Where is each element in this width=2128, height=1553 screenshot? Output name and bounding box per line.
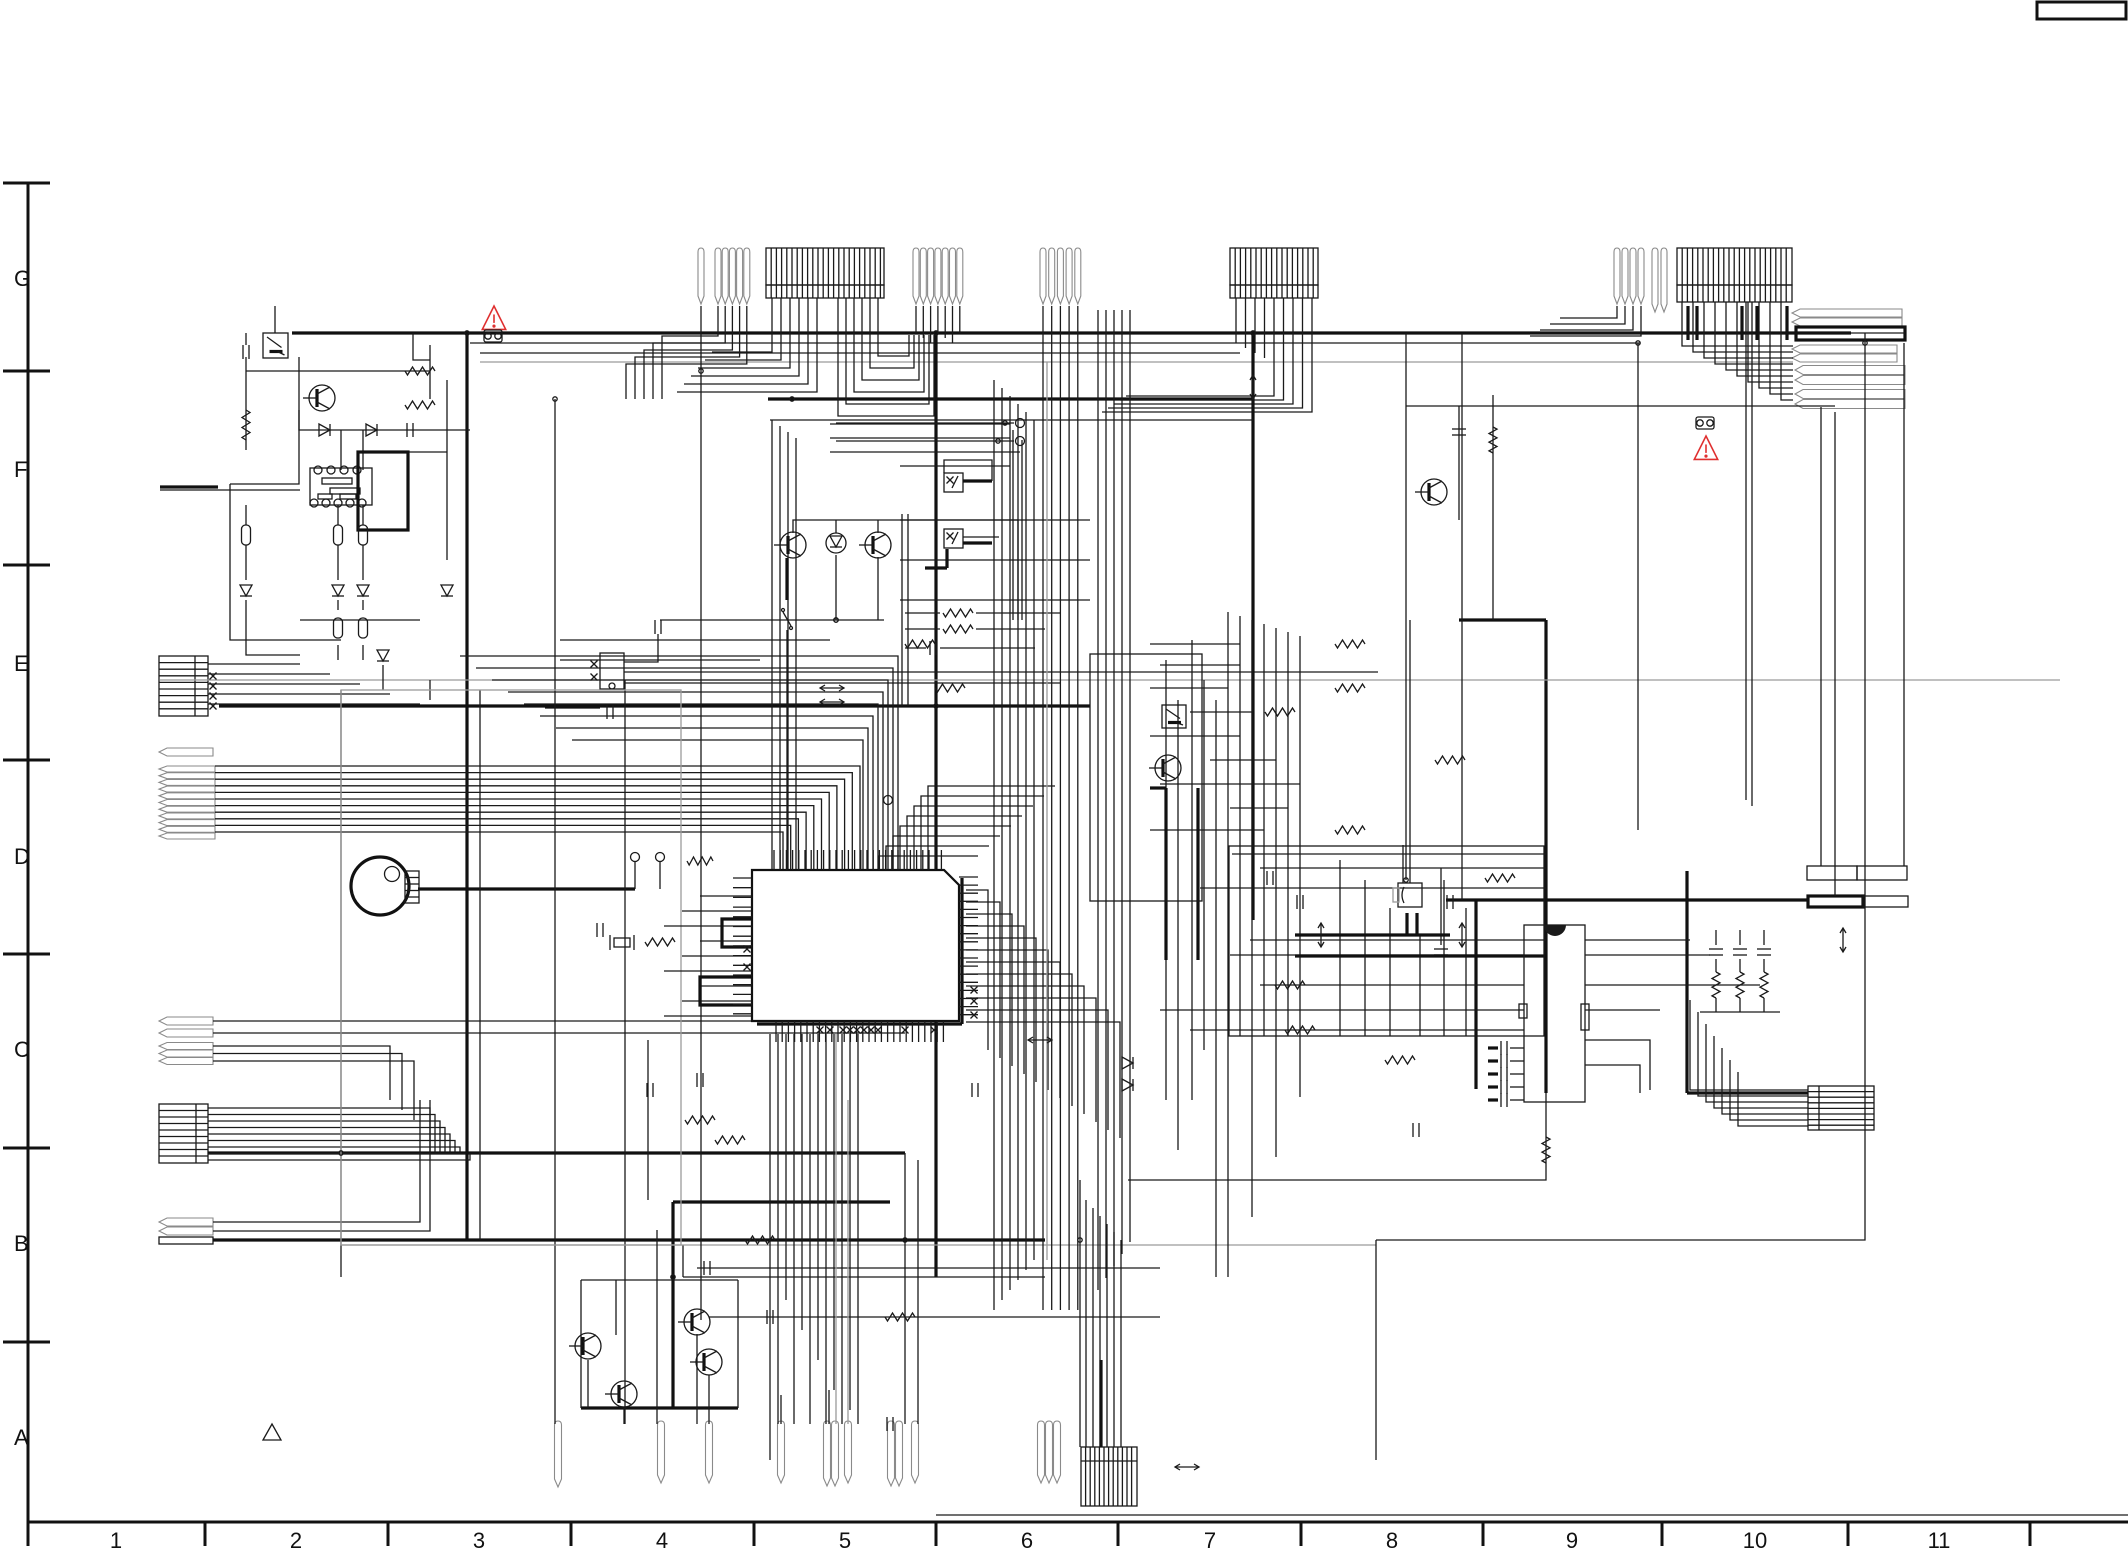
svg-text:9: 9 bbox=[1566, 1528, 1578, 1553]
spread arrows bbox=[1459, 923, 1465, 947]
wire bbox=[1759, 302, 1793, 388]
wire bbox=[700, 895, 752, 897]
capacitor bbox=[1501, 1080, 1507, 1094]
wire bbox=[966, 962, 1060, 1098]
diode bbox=[1122, 1079, 1133, 1091]
wire bbox=[1150, 735, 1240, 737]
wire bbox=[793, 1034, 795, 1424]
junction bbox=[996, 439, 1000, 443]
wire bbox=[836, 440, 1014, 442]
junction bbox=[1636, 341, 1640, 345]
transistor Q b1 bbox=[569, 1333, 601, 1359]
svg-text:G: G bbox=[14, 266, 31, 291]
wire bbox=[1704, 302, 1793, 358]
regulator block bbox=[1398, 883, 1422, 907]
wire thick stub bbox=[1785, 306, 1788, 340]
wire gray long bbox=[341, 1244, 1376, 1246]
wire bbox=[1230, 807, 1288, 809]
wire bbox=[830, 451, 1020, 453]
test point pin bbox=[1054, 1421, 1061, 1483]
wire bbox=[1227, 612, 1229, 1277]
wire bbox=[1706, 1024, 1808, 1102]
wire bbox=[572, 740, 863, 870]
wire bbox=[1461, 333, 1463, 900]
transistor Q (LED left) bbox=[774, 532, 806, 558]
wire bbox=[1585, 984, 1760, 986]
wire thick stub bbox=[785, 558, 788, 600]
wire bbox=[1190, 711, 1252, 713]
capacitor bbox=[1413, 1123, 1419, 1137]
wire bbox=[337, 545, 339, 580]
wire bbox=[1150, 687, 1228, 689]
wire bbox=[921, 796, 1044, 870]
capacitor bbox=[1757, 949, 1771, 955]
junction bbox=[934, 704, 938, 708]
wire bbox=[900, 519, 1090, 521]
diode bbox=[319, 424, 330, 436]
title box bbox=[2037, 2, 2126, 19]
wire bbox=[1903, 343, 1905, 866]
wire bbox=[213, 1054, 402, 1111]
spread arrows bbox=[1175, 1464, 1199, 1470]
connector pin bbox=[715, 248, 721, 304]
spread arrows bbox=[1318, 923, 1324, 947]
test point pin bbox=[832, 1421, 839, 1486]
wire bus bbox=[470, 342, 1640, 344]
connector pin bbox=[1792, 318, 1902, 326]
wire bbox=[966, 902, 1000, 1058]
connector pin bbox=[159, 786, 215, 792]
wire bbox=[1637, 343, 1639, 830]
svg-text:C: C bbox=[14, 1037, 30, 1062]
wire bbox=[1079, 1180, 1081, 1447]
diode bbox=[1122, 1057, 1133, 1069]
wire bbox=[1099, 1216, 1101, 1447]
wire bbox=[900, 465, 1010, 467]
wire bbox=[1726, 302, 1793, 370]
wire bbox=[966, 1010, 1108, 1130]
wire bbox=[737, 1280, 739, 1408]
wire bbox=[682, 1000, 752, 1002]
wire bbox=[476, 668, 893, 870]
capacitor bbox=[647, 1083, 653, 1097]
capacitor bbox=[1267, 871, 1273, 885]
wire bbox=[492, 680, 888, 870]
wire bbox=[213, 1046, 390, 1100]
wire bbox=[662, 306, 718, 399]
electrolytic C bbox=[242, 525, 251, 545]
wire bbox=[828, 1390, 830, 1424]
diode bbox=[366, 424, 377, 436]
wire bbox=[215, 766, 860, 870]
test point pin bbox=[1046, 1421, 1053, 1483]
wire thick stub bbox=[1740, 306, 1743, 340]
wire bbox=[879, 856, 978, 870]
resistor bbox=[943, 609, 973, 617]
wire bbox=[1128, 1093, 1546, 1180]
wire bbox=[833, 1034, 835, 1390]
junction bbox=[1863, 341, 1867, 345]
IC U1 (main microcontroller) bbox=[752, 870, 959, 1021]
resistor bbox=[1285, 1026, 1315, 1034]
connector pin bbox=[159, 1029, 213, 1037]
wire thick bbox=[1446, 898, 1807, 901]
wire bbox=[1299, 636, 1301, 1097]
wire bbox=[830, 423, 1010, 425]
test point pin bbox=[555, 1421, 562, 1487]
test point pin bbox=[1038, 1421, 1045, 1483]
wire bbox=[862, 298, 919, 380]
wire bbox=[245, 505, 247, 525]
connector pin bbox=[698, 248, 704, 304]
connector CN (hatched rows) bbox=[1808, 1086, 1874, 1130]
crystal X1 bbox=[614, 938, 630, 947]
wire thick vertical bbox=[1251, 333, 1254, 920]
wire bbox=[917, 1160, 919, 1424]
wire thick stub bbox=[545, 705, 600, 708]
wire bbox=[1419, 936, 1421, 1036]
connector pin (shield) bbox=[1796, 327, 1905, 340]
wire bbox=[362, 505, 364, 525]
left ruler tick bbox=[3, 953, 50, 956]
warning triangle bbox=[1694, 436, 1717, 459]
wire LED cluster top bbox=[793, 520, 1018, 620]
wire thick bbox=[581, 1406, 738, 1409]
left ruler tick bbox=[3, 182, 50, 185]
wire bbox=[208, 663, 300, 665]
wire bbox=[580, 1280, 582, 1408]
wire bbox=[1530, 306, 1641, 336]
junction bbox=[834, 618, 838, 622]
wire bbox=[408, 451, 447, 453]
wire bbox=[878, 298, 909, 356]
wire stub bbox=[1488, 1059, 1498, 1062]
wire bbox=[1177, 700, 1179, 1150]
resistor bbox=[715, 1136, 745, 1144]
resistor bbox=[405, 401, 435, 409]
LED bbox=[826, 533, 846, 553]
wire bbox=[1722, 1048, 1808, 1114]
wire bbox=[1033, 420, 1035, 1260]
wire bbox=[587, 1360, 589, 1408]
resistor bbox=[1736, 972, 1744, 998]
wire bbox=[1150, 643, 1240, 645]
wire bbox=[698, 298, 790, 368]
wire bbox=[664, 970, 752, 972]
wire bbox=[246, 370, 430, 372]
wire bbox=[215, 773, 852, 870]
terminal bbox=[656, 853, 665, 862]
wire bbox=[1239, 616, 1241, 1036]
connector pin bbox=[1614, 248, 1620, 304]
junction bbox=[834, 618, 838, 622]
resistor bbox=[1760, 972, 1768, 998]
capacitor bbox=[1501, 1054, 1507, 1068]
connector pin bbox=[159, 806, 215, 812]
resistor bbox=[885, 1313, 915, 1321]
wire bbox=[1739, 998, 1741, 1012]
wire bbox=[554, 399, 556, 1424]
wire bbox=[1113, 1232, 1115, 1447]
wire bbox=[208, 1147, 460, 1153]
wire bbox=[691, 298, 799, 376]
wire bbox=[230, 484, 341, 640]
wire bbox=[362, 600, 364, 610]
wire bbox=[697, 1267, 1160, 1269]
wire bbox=[1264, 298, 1266, 358]
wire bbox=[795, 438, 797, 870]
wire bbox=[1108, 298, 1303, 408]
wire bbox=[1254, 298, 1256, 353]
diode bbox=[441, 585, 453, 596]
capacitor bbox=[930, 641, 936, 655]
connector pin bbox=[159, 779, 215, 785]
test point pin bbox=[778, 1421, 785, 1483]
junction bbox=[1003, 421, 1007, 425]
bottom ruler tick bbox=[935, 1522, 938, 1546]
capacitor bbox=[972, 1083, 978, 1097]
connector pin bbox=[1075, 248, 1081, 304]
wire bbox=[769, 1034, 771, 1460]
wire thick stub bbox=[418, 887, 635, 890]
svg-text:11: 11 bbox=[1928, 1528, 1951, 1553]
wire bbox=[993, 380, 995, 1310]
wire gray long bbox=[160, 679, 2060, 681]
diode bbox=[332, 585, 344, 596]
resistor bbox=[1435, 756, 1465, 764]
wire bbox=[647, 1040, 649, 1200]
wire bbox=[208, 693, 390, 695]
wire gray bbox=[847, 1100, 849, 1424]
opto box bbox=[944, 529, 963, 548]
capacitor bbox=[1297, 895, 1303, 909]
connector pin bbox=[1661, 248, 1667, 312]
junction bbox=[339, 1151, 343, 1155]
resistor bbox=[1335, 684, 1365, 692]
wire bbox=[634, 862, 636, 889]
connector pin bbox=[159, 1227, 213, 1235]
connector pin bbox=[1652, 248, 1658, 312]
wire bbox=[1190, 1029, 1524, 1031]
wire bbox=[886, 846, 989, 870]
wire thick vertical bbox=[671, 1202, 674, 1408]
wire bbox=[1763, 998, 1765, 1012]
wire bbox=[208, 1152, 465, 1155]
wire bbox=[1458, 406, 1460, 520]
connector pin bbox=[920, 248, 926, 304]
capacitor bbox=[1452, 429, 1466, 435]
wire bbox=[245, 545, 247, 580]
wire bbox=[560, 639, 830, 641]
resistor bbox=[905, 640, 935, 648]
wire bbox=[966, 986, 1084, 1114]
connector pin bbox=[159, 1058, 213, 1065]
wire bbox=[215, 799, 822, 870]
wire bbox=[1715, 930, 1717, 945]
wire bbox=[1376, 333, 1865, 1240]
svg-text:4: 4 bbox=[656, 1528, 668, 1553]
wire bbox=[901, 514, 903, 706]
resistor bbox=[1335, 640, 1365, 648]
bottom ruler tick bbox=[1847, 1522, 1850, 1546]
wire bbox=[1690, 1000, 1808, 1090]
wire bbox=[1748, 302, 1793, 382]
wire bbox=[299, 410, 470, 430]
wire bbox=[300, 619, 420, 621]
transistor Q (LED right) bbox=[859, 532, 891, 558]
bottom ruler tick bbox=[753, 1522, 756, 1546]
capacitor bbox=[697, 1073, 703, 1087]
wire bbox=[682, 910, 752, 912]
spread arrows bbox=[820, 685, 844, 691]
photocoupler PC1 bbox=[263, 333, 288, 358]
wire bbox=[940, 647, 1035, 649]
wire thick bbox=[768, 397, 1253, 400]
wire bbox=[245, 333, 247, 345]
svg-text:A: A bbox=[14, 1425, 29, 1450]
terminal bbox=[884, 796, 893, 805]
wire bbox=[245, 357, 247, 450]
wire thick bbox=[1295, 933, 1450, 936]
box outline bbox=[1090, 654, 1202, 901]
junction bbox=[790, 397, 794, 401]
connector pin bbox=[1795, 376, 1905, 385]
wire bbox=[677, 298, 817, 392]
resistor bbox=[1485, 874, 1515, 882]
wire bbox=[1275, 628, 1277, 1157]
wire bbox=[1510, 1086, 1524, 1088]
wire bbox=[1085, 1200, 1087, 1447]
resistor bbox=[242, 410, 250, 440]
capacitor bbox=[1709, 949, 1723, 955]
connector pin bbox=[159, 833, 215, 839]
resistor bbox=[1489, 427, 1497, 453]
wire bbox=[905, 628, 940, 630]
wire thick stub bbox=[1755, 306, 1758, 340]
wire bbox=[656, 1230, 658, 1424]
wire bbox=[1770, 302, 1793, 394]
connector pin bbox=[159, 813, 215, 819]
wire thick left bus bbox=[219, 704, 1090, 707]
wire bbox=[1402, 845, 1404, 883]
wire bbox=[215, 779, 845, 870]
wire bbox=[900, 599, 1090, 601]
wire bbox=[966, 998, 1096, 1122]
wire bbox=[785, 1034, 787, 1300]
wire bbox=[1250, 939, 1546, 941]
wire bbox=[1260, 984, 1524, 986]
wire thick vertical bbox=[1099, 1360, 1102, 1447]
wire bbox=[1510, 1047, 1524, 1049]
wire bbox=[682, 1245, 684, 1277]
connector pin bbox=[722, 248, 728, 304]
junction bbox=[699, 369, 703, 373]
wire bbox=[362, 545, 364, 580]
connector pin bbox=[950, 248, 956, 304]
wire bbox=[1751, 302, 1753, 806]
wire bbox=[1585, 954, 1710, 956]
wire bbox=[246, 600, 300, 655]
wire thick stub bbox=[963, 541, 992, 544]
wire bbox=[712, 298, 772, 352]
capacitor bbox=[1501, 1041, 1507, 1055]
wire bbox=[1510, 1073, 1524, 1075]
wire bbox=[1745, 302, 1747, 800]
connector pin bbox=[1792, 354, 1897, 362]
wire stub bbox=[1488, 1085, 1498, 1088]
connector pin bbox=[1049, 248, 1055, 304]
IC U2 (vertical DIP) bbox=[1524, 925, 1585, 1102]
electrolytic C bbox=[359, 618, 368, 638]
box transistor bbox=[1162, 705, 1186, 728]
bottom ruler tick bbox=[27, 1522, 30, 1546]
wire bbox=[1714, 1036, 1808, 1108]
thick box bbox=[358, 452, 408, 530]
diode bbox=[240, 585, 252, 596]
connector CN (hatched rows) bbox=[159, 656, 208, 716]
left ruler tick bbox=[3, 1147, 50, 1150]
wire bbox=[1406, 405, 1835, 407]
wire bbox=[877, 557, 879, 620]
wire bbox=[1585, 1065, 1640, 1093]
wire bbox=[560, 659, 760, 661]
left ruler tick bbox=[3, 759, 50, 762]
connector pin bbox=[935, 248, 941, 304]
junction bbox=[1404, 878, 1408, 882]
resistor bbox=[1385, 1056, 1415, 1064]
test point pin bbox=[824, 1421, 831, 1486]
wire bbox=[1200, 887, 1546, 889]
wire bbox=[581, 1279, 738, 1281]
connector pin bbox=[159, 1017, 213, 1025]
resistor bbox=[943, 625, 973, 633]
wire bbox=[479, 690, 481, 1240]
wire bbox=[446, 380, 448, 560]
wire bbox=[1232, 853, 1546, 855]
junction bbox=[553, 397, 557, 401]
junction bbox=[671, 1275, 675, 1279]
wire bbox=[1059, 306, 1061, 1310]
bottom ruler tick bbox=[1661, 1522, 1664, 1546]
connector pin bbox=[1792, 345, 1897, 353]
wire bbox=[1150, 829, 1264, 831]
wire bbox=[208, 1134, 450, 1153]
wire bbox=[966, 1022, 1120, 1138]
wire bbox=[213, 1020, 905, 1022]
wire bbox=[1068, 306, 1070, 1310]
wire bbox=[904, 1153, 906, 1424]
wire xmarks bbox=[210, 673, 217, 710]
wire bbox=[160, 489, 300, 491]
connector pin bbox=[737, 248, 743, 304]
wire bbox=[849, 1034, 851, 1410]
bottom ruler tick bbox=[1117, 1522, 1120, 1546]
wire bbox=[660, 619, 884, 621]
wire bbox=[429, 345, 431, 399]
wire bbox=[1105, 310, 1107, 1278]
wire bbox=[1698, 1012, 1808, 1096]
wire bbox=[838, 298, 934, 416]
warning triangle bbox=[482, 306, 505, 329]
wire bbox=[1092, 1208, 1094, 1447]
wire bbox=[900, 826, 1011, 870]
connector pin bbox=[159, 1043, 213, 1050]
wire bbox=[1389, 908, 1391, 1036]
wire bbox=[337, 645, 339, 660]
triangle (delta) bbox=[263, 1424, 281, 1440]
resistor bbox=[1275, 981, 1305, 989]
IC hybrid small bbox=[600, 653, 624, 689]
